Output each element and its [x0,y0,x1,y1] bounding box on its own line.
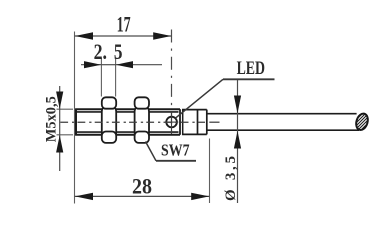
M5x0,5 extension lines [57,108,74,110]
housing end double edge [179,109,181,135]
svg-text:SW7: SW7 [161,141,190,160]
svg-text:28: 28 [132,173,152,198]
svg-text:LED: LED [237,58,265,79]
M5 thread barrel body [75,109,180,136]
dim 2.5 arrow left [84,61,101,68]
cable cut end ellipse with hatch [348,109,374,134]
svg-text:17: 17 [117,11,131,36]
dim 2.5 extension lines [100,58,102,97]
dim 2.5 line with outside arrows [81,64,101,66]
extension line right of dim 28 [209,139,211,204]
dim 17 arrow left [75,32,93,39]
dim 2.5 arrow right [116,61,133,68]
M5x0,5 arrow top (pointing down) [56,92,63,109]
dim 28 arrow right [191,193,209,200]
extension line at thread end / LED axis (dash-dot) [171,30,173,136]
centerline last dash [209,121,219,123]
centerline of sensor axis [60,121,205,123]
dia 3,5 dimension line vertical [237,80,239,203]
LED window circle [166,117,177,128]
dia 3,5 arrow top (pointing down) [234,96,241,114]
cable bush section [182,110,207,135]
M5x0,5 arrow bottom (pointing up) [56,135,63,152]
extension line left (shared by dim 17 and dim 28) [74,32,76,204]
svg-text:M5x0,5: M5x0,5 [43,96,59,142]
thread crest lines [77,112,179,132]
SW7 leader line [146,142,157,161]
M5x0,5 dimension line vertical [59,86,61,171]
svg-text:2.: 2. [94,39,107,64]
cable [207,114,359,131]
dia 3,5 arrow bottom (pointing up) [234,131,241,149]
dim 17 arrow right [153,32,171,39]
dim 17 line [75,35,172,37]
dim 28 arrow left [75,193,93,200]
LED center mark horizontal [165,121,179,123]
LED leader line [176,79,224,118]
dim 28 line [75,195,210,197]
hex nut 2 [135,97,149,143]
svg-text:5: 5 [114,39,123,64]
hex nut 1 [102,97,116,143]
LED center mark vertical [171,112,173,135]
svg-text:Ø 3,5: Ø 3,5 [223,156,239,201]
